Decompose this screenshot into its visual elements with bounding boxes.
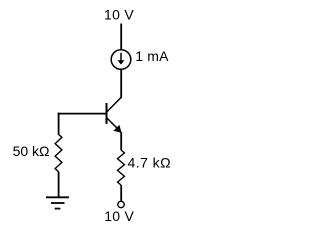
ground — [46, 197, 69, 208]
svg-text:1 mA: 1 mA — [135, 48, 169, 64]
resistor R2 4.7 kOhm — [118, 150, 125, 185]
wire emitter to R2 — [120, 132, 122, 150]
wire base — [58, 113, 107, 115]
current source I1 1 mA — [111, 50, 131, 70]
svg-text:10 V: 10 V — [104, 7, 134, 23]
base bar — [106, 103, 108, 124]
resistor R1 50 kOhm — [55, 134, 62, 171]
emitter arrowhead — [113, 125, 121, 133]
emitter lead — [107, 118, 120, 131]
terminal VEE open circle — [118, 201, 124, 207]
transistor Q1 — [107, 98, 122, 133]
svg-text:4.7 kΩ: 4.7 kΩ — [128, 154, 172, 170]
svg-text:50 kΩ: 50 kΩ — [13, 143, 50, 159]
wire current source to collector — [120, 69, 122, 98]
wire left vertical to R1 — [58, 113, 60, 135]
collector lead — [107, 98, 121, 113]
wire VCC to current source — [120, 24, 122, 51]
wire R1 to ground — [58, 172, 60, 197]
svg-text:10 V: 10 V — [104, 208, 134, 224]
wire R2 to terminal — [120, 185, 122, 201]
